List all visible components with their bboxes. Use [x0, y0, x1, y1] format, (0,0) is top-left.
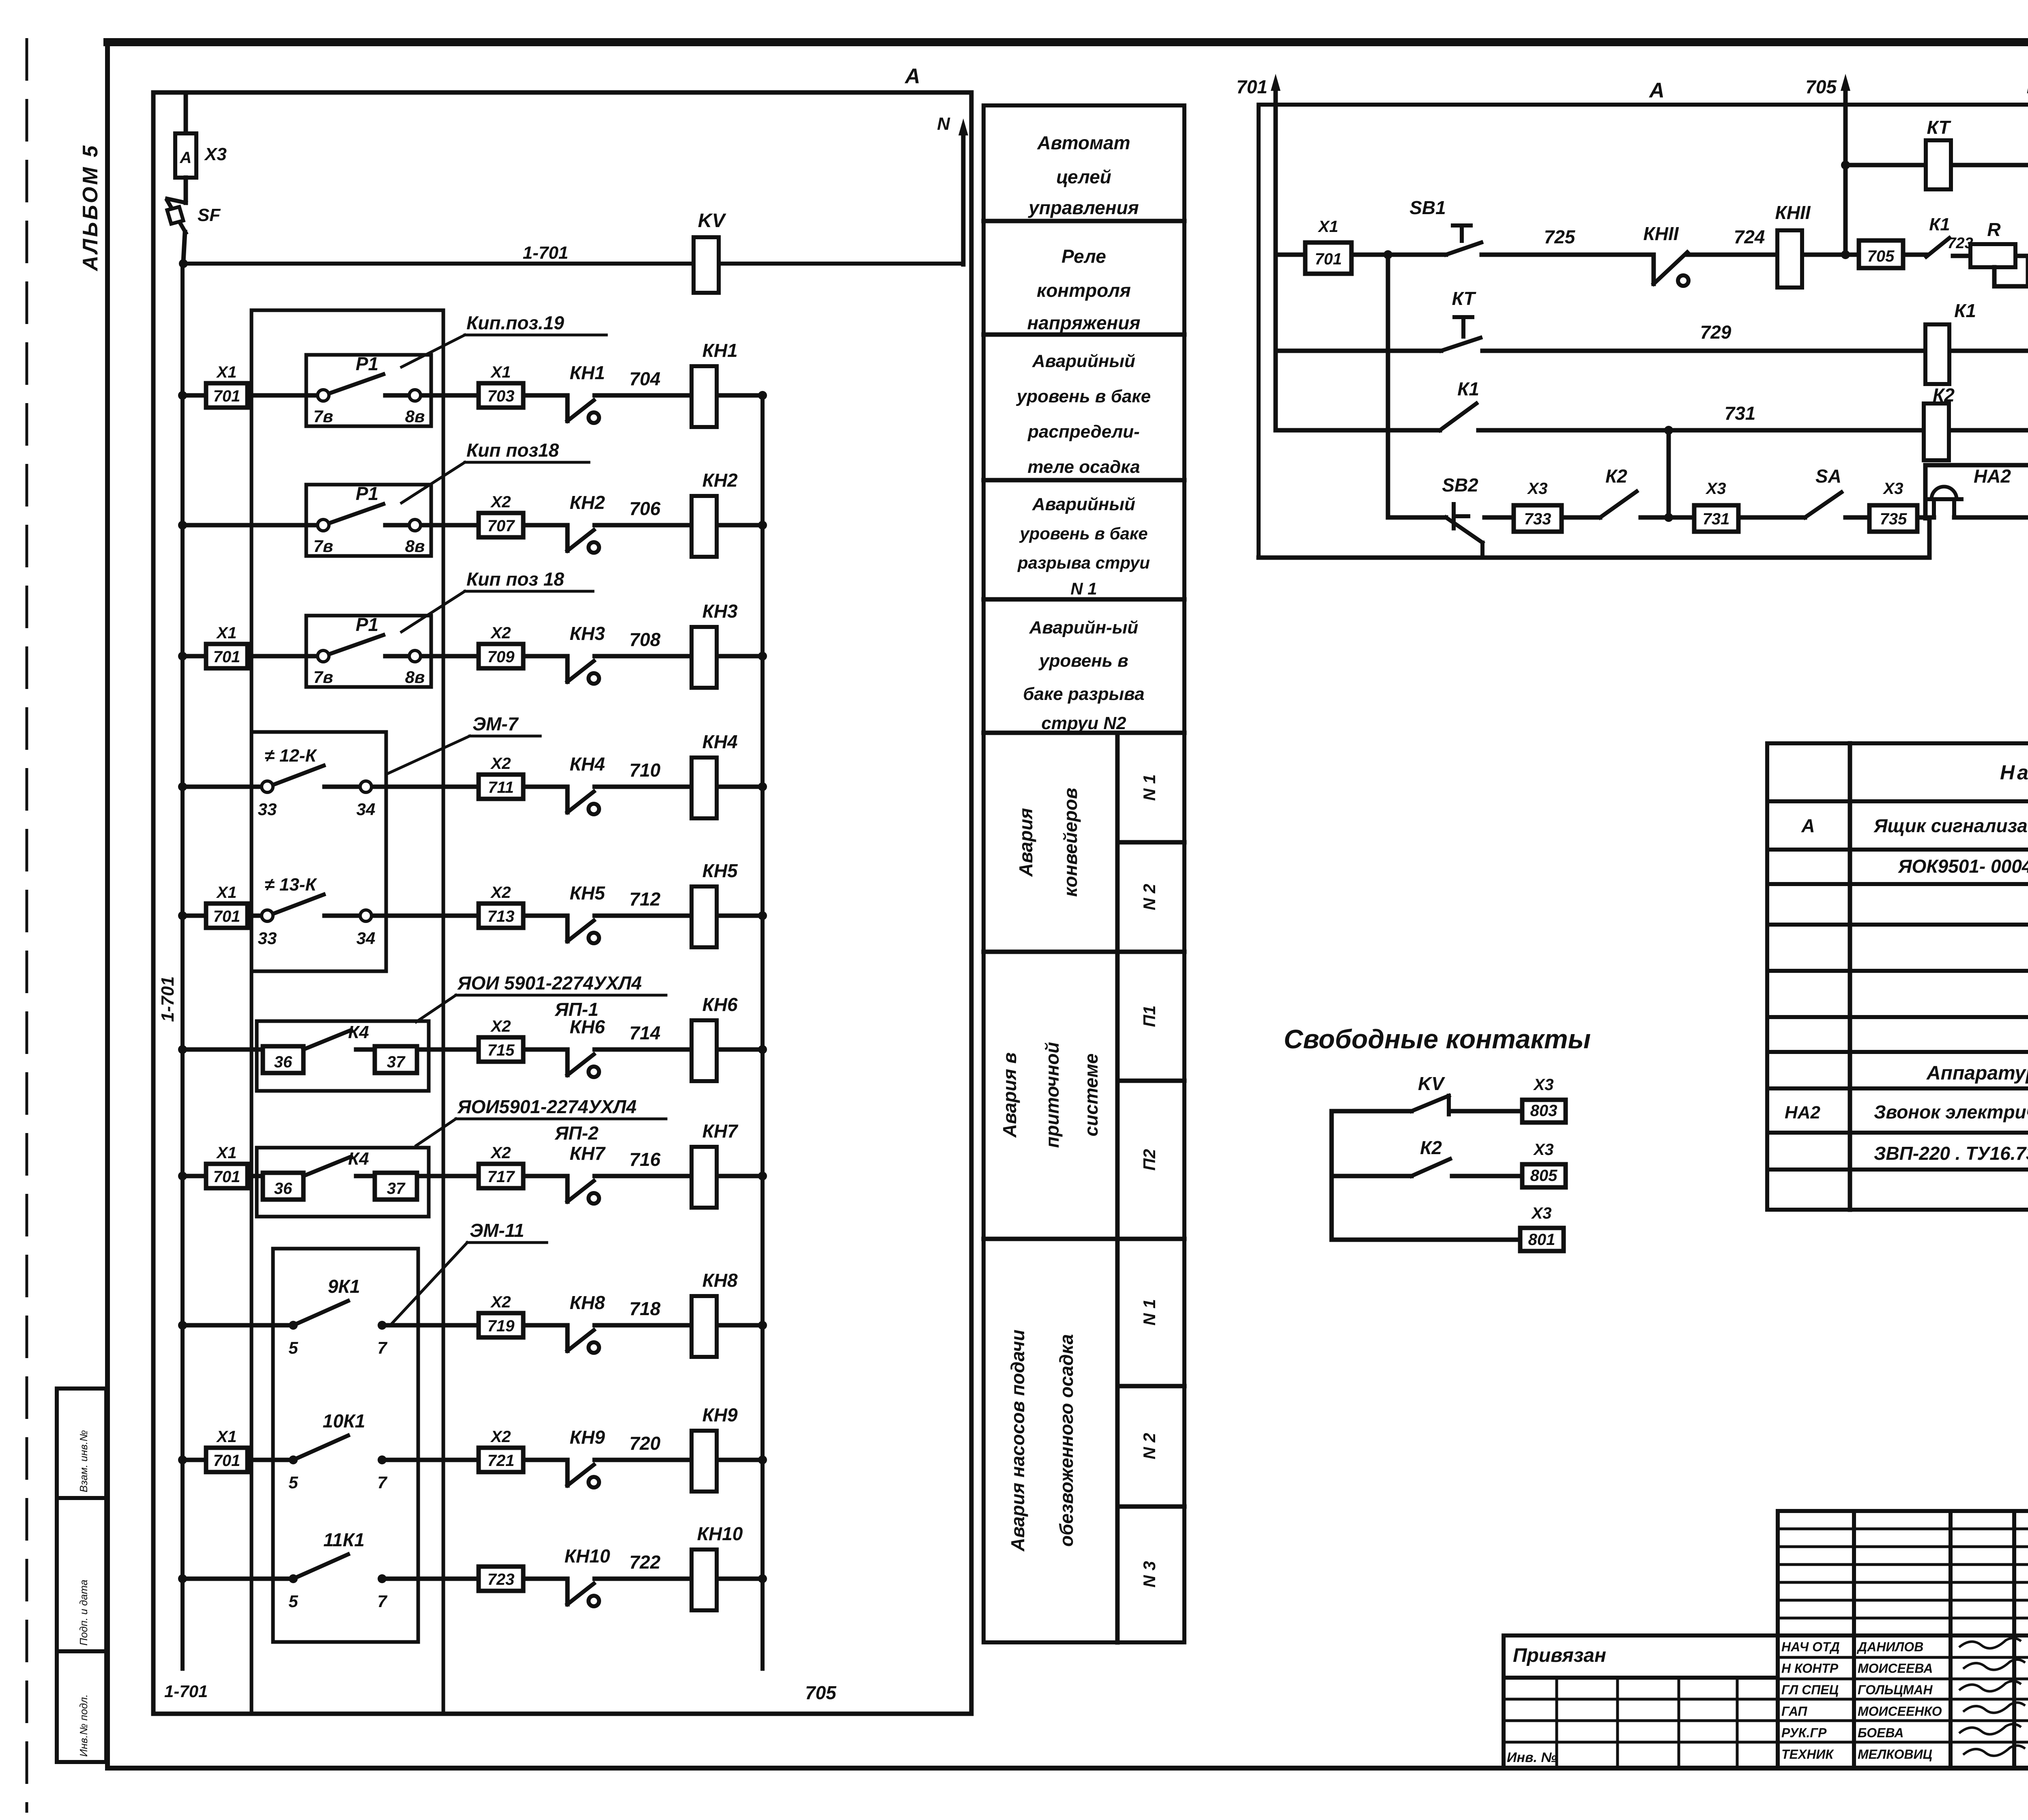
- svg-text:705: 705: [1805, 76, 1837, 97]
- svg-text:конвейеров: конвейеров: [1060, 788, 1081, 897]
- svg-text:Реле: Реле: [1061, 246, 1106, 267]
- svg-text:X1: X1: [216, 1428, 237, 1446]
- wire label 724: [1734, 226, 1765, 247]
- svg-text:X1: X1: [490, 363, 511, 381]
- svg-text:X3: X3: [1531, 1204, 1552, 1222]
- svg-text:системе: системе: [1081, 1054, 1102, 1137]
- svg-text:уровень в баке: уровень в баке: [1019, 524, 1147, 543]
- svg-text:705: 705: [1867, 247, 1895, 265]
- svg-text:КН1: КН1: [702, 340, 737, 361]
- svg-text:А: А: [1648, 79, 1665, 102]
- svg-text:X2: X2: [490, 755, 511, 773]
- svg-text:П1: П1: [1140, 1005, 1159, 1027]
- sensor box ЭМ-11: [273, 1249, 418, 1642]
- svg-text:КН6: КН6: [702, 994, 737, 1015]
- cell N3 pump: [1140, 1561, 1159, 1587]
- svg-text:7: 7: [377, 1473, 387, 1492]
- wire label 723: [1947, 235, 1973, 252]
- wire label 1-701: [523, 243, 569, 263]
- part row A ящик сигнализации: [1801, 815, 2028, 836]
- cell Аварийный уровень в баке распределителе осадка: [1016, 351, 1151, 477]
- svg-text:709: 709: [488, 648, 515, 666]
- svg-text:N: N: [937, 114, 950, 134]
- svg-text:11К1: 11К1: [323, 1529, 365, 1550]
- node N feeder: [2027, 74, 2028, 465]
- svg-text:обезвоженного осадка: обезвоженного осадка: [1056, 1334, 1077, 1547]
- svg-text:ГОЛЬЦМАН: ГОЛЬЦМАН: [1858, 1683, 1933, 1697]
- svg-text:К2: К2: [1420, 1137, 1442, 1158]
- svg-text:X1: X1: [216, 363, 237, 381]
- terminal X3 731: [1694, 480, 1738, 532]
- svg-text:А: А: [904, 64, 920, 88]
- free contacts left link: [1330, 1111, 1334, 1240]
- svg-text:SF: SF: [198, 205, 221, 225]
- svg-text:Р1: Р1: [356, 353, 378, 374]
- relay coil КН5 row 5: [692, 860, 738, 947]
- svg-text:Аппаратура по месту: Аппаратура по месту: [1926, 1062, 2028, 1084]
- callout Кип поз18: [402, 440, 589, 503]
- svg-text:ЯОИ5901-2274УХЛ4: ЯОИ5901-2274УХЛ4: [457, 1096, 636, 1117]
- relay coil КН9 row 9: [692, 1404, 738, 1492]
- svg-text:ГЛ СПЕЦ: ГЛ СПЕЦ: [1781, 1683, 1839, 1697]
- right bus 705 vertical: [760, 395, 765, 1669]
- svg-text:733: 733: [1524, 510, 1551, 528]
- svg-text:К1: К1: [1929, 215, 1950, 234]
- contact КН2 row 2: [567, 492, 605, 553]
- svg-text:Аварийный: Аварийный: [1032, 351, 1135, 371]
- svg-text:5: 5: [288, 1473, 298, 1492]
- svg-text:теле осадка: теле осадка: [1027, 457, 1140, 477]
- svg-text:729: 729: [1700, 322, 1732, 343]
- svg-text:7в: 7в: [314, 667, 333, 687]
- svg-text:X1: X1: [1318, 218, 1338, 236]
- svg-text:ГАП: ГАП: [1781, 1704, 1807, 1719]
- svg-text:КНII: КНII: [1775, 202, 1811, 223]
- wire row 3: [178, 652, 767, 661]
- svg-text:Авария в: Авария в: [999, 1052, 1020, 1138]
- contact P1 row 2: [306, 483, 431, 556]
- relay coil КН2 row 2: [692, 470, 738, 557]
- callout ЯОИ5901-2274УХЛ4 ЯП-2: [416, 1096, 666, 1146]
- pushbutton SB1: [1409, 197, 1481, 255]
- svg-text:Кип поз 18: Кип поз 18: [466, 569, 564, 590]
- terminal X1 703 row 1: [479, 363, 523, 408]
- contact 13-К row 5: [258, 875, 376, 948]
- stamp Инв N: [1507, 1750, 1557, 1765]
- node N of box A: [937, 114, 968, 264]
- svg-text:баке разрыва: баке разрыва: [1023, 684, 1144, 704]
- svg-text:ЭМ-7: ЭМ-7: [473, 713, 519, 734]
- svg-text:701: 701: [1236, 76, 1267, 97]
- contact 9К1 row 8: [288, 1276, 387, 1357]
- contact К1 row1: [1926, 215, 1950, 257]
- svg-text:705: 705: [805, 1682, 837, 1703]
- svg-text:37: 37: [387, 1180, 406, 1198]
- svg-text:НАЧ ОТД: НАЧ ОТД: [1781, 1640, 1840, 1654]
- wire label 708 row 3: [629, 629, 661, 650]
- svg-text:805: 805: [1530, 1167, 1558, 1185]
- cell Реле контроля напряжения: [1027, 246, 1140, 333]
- wire riser 731 to bottom row: [1664, 430, 1673, 522]
- svg-text:Ящик сигнализации (ЯС1): Ящик сигнализации (ЯС1): [1873, 815, 2028, 836]
- svg-text:Подп. и дата: Подп. и дата: [77, 1580, 90, 1646]
- svg-text:720: 720: [629, 1433, 661, 1454]
- contact 10К1 row 9: [288, 1410, 387, 1492]
- stamp Привязан: [1513, 1645, 1606, 1666]
- svg-text:распредели-: распредели-: [1027, 422, 1140, 442]
- part row НА2 звонок: [1785, 1101, 2028, 1122]
- svg-text:701: 701: [213, 1168, 241, 1186]
- svg-text:К2: К2: [1605, 466, 1627, 487]
- wire label 718 row 8: [629, 1298, 661, 1319]
- svg-text:723: 723: [488, 1571, 515, 1588]
- terminal X2 709 row 3: [479, 624, 523, 668]
- svg-text:X2: X2: [490, 493, 511, 511]
- svg-text:N 2: N 2: [1140, 1433, 1159, 1459]
- part row ЯОК9501: [1898, 856, 2028, 877]
- svg-text:≠ 12-К: ≠ 12-К: [264, 746, 317, 766]
- svg-text:целей: целей: [1056, 166, 1111, 187]
- contact КН10 row 10: [565, 1545, 610, 1606]
- cell Авария конвейеров: [1015, 788, 1081, 897]
- svg-text:П2: П2: [1140, 1149, 1159, 1171]
- svg-text:33: 33: [258, 929, 277, 948]
- right circuit enclosure: [1259, 105, 2028, 558]
- cell N1: [1140, 774, 1159, 801]
- wire label 712 row 5: [629, 889, 661, 910]
- left bus 701 vertical: [180, 264, 185, 1669]
- wire row 7: [178, 1172, 767, 1180]
- terminal X1 701 row 3: [206, 624, 247, 668]
- svg-text:X2: X2: [490, 1144, 511, 1162]
- svg-text:Кип поз18: Кип поз18: [466, 440, 559, 461]
- wire label 720 row 9: [629, 1433, 661, 1454]
- relay coil КН7 row 7: [692, 1120, 739, 1208]
- svg-text:Наименование: Наименование: [2000, 761, 2028, 784]
- svg-text:КТ: КТ: [1452, 288, 1477, 309]
- svg-text:МЕЛКОВИЦ: МЕЛКОВИЦ: [1858, 1747, 1932, 1762]
- relay coil KT: [1926, 117, 1951, 189]
- part row Аппаратура по месту: [1926, 1062, 2028, 1084]
- bell НА2: [1927, 466, 2011, 517]
- bell frame: [1925, 465, 2028, 518]
- svg-text:ТЕХНИК: ТЕХНИК: [1781, 1747, 1834, 1762]
- relay coil КН10 row 10: [692, 1523, 743, 1610]
- svg-text:719: 719: [488, 1317, 515, 1335]
- svg-text:7: 7: [377, 1338, 387, 1357]
- svg-text:716: 716: [629, 1149, 661, 1170]
- middle function table: [984, 105, 1184, 1642]
- svg-text:1-701: 1-701: [164, 1682, 208, 1701]
- svg-text:НА2: НА2: [1974, 466, 2011, 487]
- svg-text:X2: X2: [490, 884, 511, 901]
- svg-text:Р1: Р1: [356, 614, 378, 635]
- svg-text:К4: К4: [348, 1022, 369, 1042]
- svg-text:706: 706: [629, 498, 661, 519]
- cell Аварийный уровень в баке разрыва струи N1: [1017, 494, 1150, 598]
- wire row 731: [1276, 426, 2028, 435]
- callout Кип.поз.19: [402, 312, 606, 367]
- page edge dashed trim line: [26, 38, 28, 1813]
- relay coil КН6 row 6: [692, 994, 738, 1081]
- contact К4 with terminals 36 37 row 7: [263, 1149, 417, 1200]
- svg-text:разрыва струи: разрыва струи: [1017, 553, 1150, 572]
- contact КН3 row 3: [567, 623, 605, 684]
- album label АЛЬБОМ 5: [79, 144, 102, 272]
- svg-text:Звонок электрический: Звонок электрический: [1874, 1101, 2028, 1122]
- svg-text:X3: X3: [1533, 1141, 1554, 1159]
- svg-text:МОИСЕЕНКО: МОИСЕЕНКО: [1858, 1704, 1942, 1719]
- svg-text:735: 735: [1880, 510, 1907, 528]
- wire label 706 row 2: [629, 498, 661, 519]
- svg-text:701: 701: [213, 387, 241, 405]
- cell Авария насосов подачи обезвоженного осадка: [1007, 1330, 1077, 1552]
- box A (ящик сигнализации) outline: [153, 92, 971, 1714]
- svg-text:713: 713: [488, 908, 515, 925]
- contact KV free: [1332, 1073, 1522, 1114]
- svg-text:X3: X3: [1706, 480, 1726, 498]
- wire KT branch: [1841, 161, 2028, 170]
- svg-text:N 2: N 2: [1140, 884, 1159, 910]
- svg-text:701: 701: [1315, 250, 1342, 268]
- wire row SB2 bottom: [1388, 515, 2028, 520]
- svg-text:ЯП-1: ЯП-1: [554, 999, 599, 1020]
- svg-text:724: 724: [1734, 226, 1765, 247]
- svg-text:Н КОНТР: Н КОНТР: [1781, 1661, 1839, 1676]
- svg-text:33: 33: [258, 800, 277, 819]
- connector X3: [175, 92, 227, 178]
- svg-text:801: 801: [1528, 1231, 1555, 1249]
- svg-text:5: 5: [288, 1338, 298, 1357]
- title Свободные контакты: [1284, 1024, 1591, 1054]
- svg-text:А: А: [1801, 815, 1815, 836]
- svg-text:7в: 7в: [314, 537, 333, 556]
- cell N2: [1140, 884, 1159, 910]
- svg-text:контроля: контроля: [1037, 280, 1131, 301]
- svg-text:уровень в: уровень в: [1038, 651, 1128, 671]
- svg-text:КН5: КН5: [569, 882, 605, 904]
- svg-text:701: 701: [213, 908, 241, 925]
- wire label 722 row 10: [629, 1552, 661, 1573]
- contact P1 row 3: [306, 614, 431, 687]
- svg-text:N 1: N 1: [1140, 774, 1159, 801]
- contact КН6 row 6: [567, 1016, 605, 1077]
- svg-text:КН3: КН3: [702, 601, 737, 622]
- terminal X1 701 row 9: [206, 1428, 247, 1472]
- svg-text:КН8: КН8: [569, 1292, 605, 1313]
- contact КН8 row 8: [567, 1292, 605, 1353]
- terminal X3 803: [1522, 1076, 1566, 1122]
- svg-text:X3: X3: [1527, 480, 1548, 498]
- relay coil К2: [1924, 384, 1955, 460]
- terminal X3 801: [1520, 1204, 1564, 1251]
- svg-text:X2: X2: [490, 1017, 511, 1035]
- label A of box: [904, 64, 920, 88]
- wire bus 1-701 top: [179, 259, 963, 268]
- svg-text:34: 34: [357, 800, 376, 819]
- svg-text:КН3: КН3: [569, 623, 605, 644]
- cell Автомат целей управления: [1028, 132, 1139, 218]
- svg-text:Аварийный: Аварийный: [1032, 494, 1135, 514]
- svg-text:Привязан: Привязан: [1513, 1645, 1606, 1666]
- contact 11К1 row 10: [288, 1529, 387, 1611]
- svg-text:Х3: Х3: [204, 144, 227, 164]
- svg-text:710: 710: [629, 760, 661, 781]
- svg-text:КН2: КН2: [702, 470, 737, 491]
- part row ЗВП-220: [1874, 1143, 2028, 1164]
- svg-text:уровень в баке: уровень в баке: [1016, 386, 1151, 406]
- svg-text:управления: управления: [1028, 197, 1139, 218]
- svg-text:КН5: КН5: [702, 860, 738, 881]
- node 701 feeder: [1236, 74, 1280, 430]
- svg-text:9К1: 9К1: [328, 1276, 360, 1297]
- svg-text:К4: К4: [348, 1149, 369, 1169]
- wire return bottom: [1259, 518, 1929, 558]
- callout ЭМ-7: [387, 713, 540, 774]
- svg-text:KV: KV: [1418, 1073, 1445, 1094]
- svg-text:36: 36: [274, 1053, 292, 1071]
- contact КН1 row 1: [567, 362, 605, 423]
- svg-text:АЛЬБОМ 5: АЛЬБОМ 5: [79, 144, 102, 272]
- svg-text:Авария: Авария: [1015, 808, 1036, 877]
- contact КН9 row 9: [567, 1427, 605, 1487]
- terminal X2 717 row 7: [479, 1144, 523, 1188]
- wire row 729: [1276, 346, 2028, 355]
- svg-text:КН9: КН9: [702, 1404, 737, 1425]
- svg-text:ЭМ-11: ЭМ-11: [470, 1220, 524, 1241]
- sensor box ЯП-1: [257, 1021, 429, 1091]
- svg-text:1-701: 1-701: [158, 976, 178, 1022]
- svg-text:8в: 8в: [405, 537, 425, 556]
- svg-text:8в: 8в: [405, 667, 425, 687]
- svg-text:Аварийн-ый: Аварийн-ый: [1029, 618, 1139, 637]
- terminal X2 713 row 5: [479, 884, 523, 928]
- wire row 6: [178, 1045, 767, 1054]
- svg-text:10К1: 10К1: [322, 1410, 365, 1432]
- cell П2: [1140, 1149, 1159, 1171]
- relay coil КН8 row 8: [692, 1270, 738, 1357]
- svg-text:5: 5: [288, 1592, 298, 1611]
- title block grid: [1504, 1511, 2028, 1768]
- svg-text:Р1: Р1: [356, 483, 378, 504]
- switch SA: [1805, 466, 1841, 517]
- terminal X3 805: [1522, 1141, 1566, 1187]
- svg-text:803: 803: [1530, 1102, 1558, 1120]
- svg-text:731: 731: [1725, 403, 1756, 424]
- signature rows: [1781, 1638, 2025, 1762]
- cell N1 pump: [1140, 1299, 1159, 1325]
- terminal X3 733: [1514, 480, 1562, 532]
- callout Кип поз 18: [402, 569, 593, 632]
- terminal X2 721 row 9: [479, 1428, 523, 1472]
- svg-text:701: 701: [213, 1452, 241, 1470]
- contact К2 free: [1332, 1137, 1522, 1176]
- wire row 1: [178, 391, 767, 400]
- svg-text:НА2: НА2: [1785, 1103, 1821, 1122]
- terminal X2 711 row 4: [479, 755, 523, 799]
- cell Авария в приточной системе: [999, 1042, 1102, 1148]
- svg-text:703: 703: [488, 387, 515, 405]
- contact КТ: [1441, 288, 1480, 351]
- svg-text:Кип.поз.19: Кип.поз.19: [466, 312, 564, 333]
- bus label 1-701 bottom: [164, 1682, 208, 1701]
- resistor R: [1970, 219, 2028, 286]
- svg-text:37: 37: [387, 1053, 406, 1071]
- svg-text:Автомат: Автомат: [1037, 132, 1130, 153]
- contact P1 row 1: [306, 353, 431, 426]
- svg-text:SB2: SB2: [1442, 474, 1478, 496]
- terminal X1 701 row 1: [206, 363, 247, 408]
- label A right block: [1648, 79, 1665, 102]
- contact 12-К row 4: [258, 746, 376, 819]
- cell N2 pump: [1140, 1433, 1159, 1459]
- callout column rectangle: [251, 310, 443, 1714]
- svg-text:N 1: N 1: [1070, 579, 1097, 598]
- svg-text:722: 722: [629, 1552, 661, 1573]
- wire label 705 bottom: [805, 1682, 837, 1703]
- circuit breaker SF: [167, 178, 221, 262]
- svg-text:КН9: КН9: [569, 1427, 605, 1448]
- parts table: [1767, 743, 2028, 1210]
- wire row 4: [178, 782, 767, 791]
- svg-text:струи N2: струи N2: [1041, 713, 1126, 733]
- relay coil КНII: [1775, 202, 1811, 288]
- contact КН7 row 7: [567, 1143, 606, 1204]
- svg-text:приточной: приточной: [1042, 1042, 1063, 1148]
- svg-text:КН10: КН10: [565, 1545, 610, 1567]
- svg-text:КН4: КН4: [569, 753, 605, 775]
- svg-text:Инв. №: Инв. №: [1507, 1750, 1557, 1765]
- relay coil К1: [1925, 300, 1976, 384]
- terminal X2 707 row 2: [479, 493, 523, 537]
- svg-text:А: А: [180, 149, 192, 167]
- svg-text:ЯОИ 5901-2274УХЛ4: ЯОИ 5901-2274УХЛ4: [457, 972, 642, 994]
- svg-text:КТ: КТ: [1927, 117, 1952, 138]
- svg-text:721: 721: [488, 1452, 515, 1470]
- svg-text:717: 717: [488, 1168, 515, 1186]
- svg-text:ЯП-2: ЯП-2: [554, 1122, 599, 1144]
- svg-text:708: 708: [629, 629, 661, 650]
- wire label 731: [1725, 403, 1756, 424]
- terminal 723 row 10: [479, 1567, 523, 1591]
- svg-text:731: 731: [1703, 510, 1730, 528]
- bus label 1-701 vertical: [158, 976, 178, 1022]
- wire label 704 row 1: [629, 368, 661, 389]
- parts header: [2000, 761, 2028, 784]
- left stamp strip: [57, 1389, 106, 1762]
- contact КН5 row 5: [567, 882, 606, 943]
- svg-text:N 1: N 1: [1140, 1299, 1159, 1325]
- svg-text:X2: X2: [490, 624, 511, 642]
- contact КНII: [1643, 223, 1689, 286]
- svg-text:МОИСЕЕВА: МОИСЕЕВА: [1858, 1661, 1933, 1676]
- svg-text:КНII: КНII: [1643, 223, 1679, 244]
- svg-text:X1: X1: [216, 1144, 237, 1162]
- svg-text:SB1: SB1: [1409, 197, 1446, 218]
- svg-text:SA: SA: [1815, 466, 1841, 487]
- svg-text:Авария насосов подачи: Авария насосов подачи: [1007, 1330, 1028, 1552]
- wire row 8: [178, 1321, 767, 1330]
- svg-text:РУК.ГР: РУК.ГР: [1781, 1726, 1827, 1740]
- svg-text:X1: X1: [216, 884, 237, 901]
- callout ЭМ-11: [391, 1220, 547, 1324]
- wire row 2: [178, 521, 767, 530]
- svg-text:7в: 7в: [314, 407, 333, 426]
- wire row 9: [178, 1455, 767, 1464]
- svg-text:ЗВП-220 . ТУ16.739. 059-76: ЗВП-220 . ТУ16.739. 059-76: [1874, 1143, 2028, 1164]
- svg-text:715: 715: [488, 1041, 515, 1059]
- svg-text:7: 7: [377, 1592, 387, 1611]
